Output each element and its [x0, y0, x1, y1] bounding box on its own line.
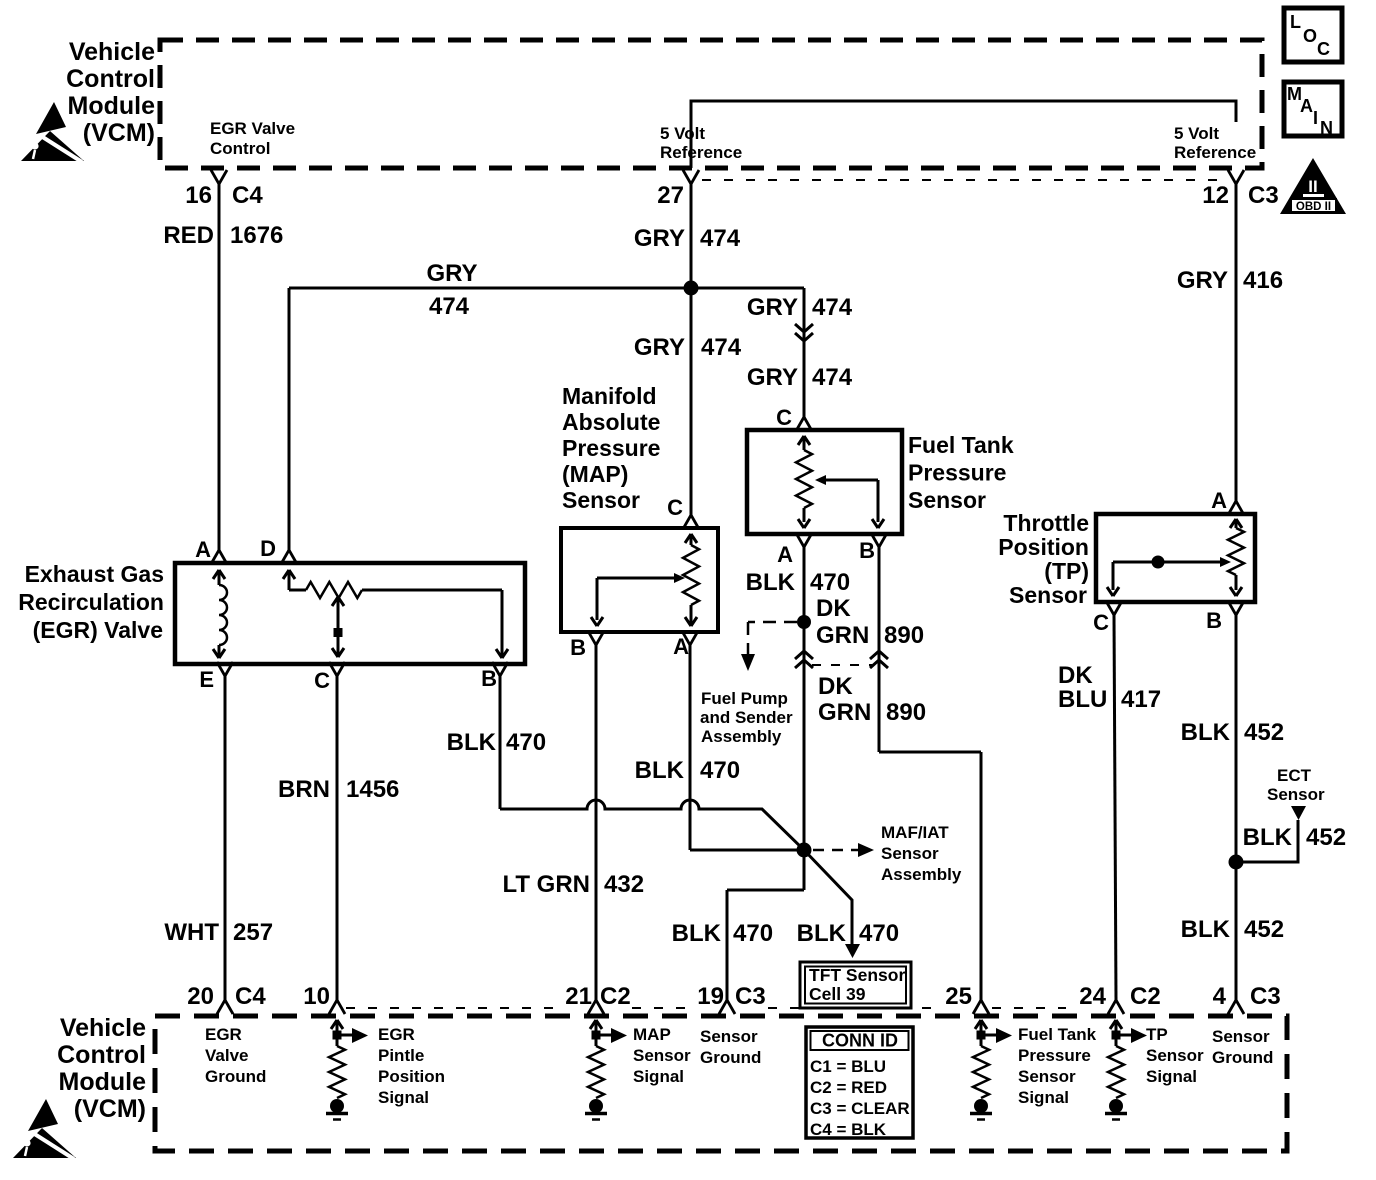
svg-text:C: C	[667, 495, 683, 520]
svg-text:C: C	[1317, 39, 1330, 59]
svg-text:(VCM): (VCM)	[83, 119, 155, 147]
svg-text:LT GRN: LT GRN	[502, 871, 590, 898]
svg-text:C3: C3	[735, 983, 766, 1010]
svg-text:Pressure: Pressure	[908, 460, 1006, 486]
svg-text:E: E	[199, 667, 214, 692]
svg-text:BLU: BLU	[1058, 686, 1107, 713]
svg-text:Vehicle: Vehicle	[60, 1014, 146, 1042]
svg-text:24: 24	[1079, 983, 1106, 1010]
svg-text:Absolute: Absolute	[562, 409, 660, 435]
svg-text:C2 = RED: C2 = RED	[810, 1078, 887, 1097]
svg-text:Signal: Signal	[1146, 1067, 1197, 1086]
svg-text:470: 470	[859, 920, 899, 947]
svg-text:CONN ID: CONN ID	[822, 1031, 898, 1051]
svg-text:BRN: BRN	[278, 776, 330, 803]
svg-text:and Sender: and Sender	[700, 708, 793, 727]
svg-text:(MAP): (MAP)	[562, 461, 628, 487]
svg-text:A: A	[1300, 96, 1313, 116]
svg-text:C4: C4	[232, 182, 263, 209]
svg-text:N: N	[1320, 118, 1333, 138]
svg-text:Reference: Reference	[1174, 143, 1256, 162]
svg-text:474: 474	[700, 225, 741, 252]
svg-text:O: O	[1303, 26, 1317, 46]
svg-text:Sensor: Sensor	[908, 487, 986, 513]
svg-text:Control: Control	[57, 1041, 146, 1069]
svg-text:TP: TP	[1146, 1025, 1168, 1044]
svg-text:890: 890	[884, 622, 924, 649]
svg-text:Position: Position	[378, 1067, 445, 1086]
svg-text:Module: Module	[59, 1068, 147, 1096]
svg-text:432: 432	[604, 871, 644, 898]
svg-text:5 Volt: 5 Volt	[1174, 124, 1219, 143]
svg-text:25: 25	[945, 983, 972, 1010]
svg-text:Ground: Ground	[700, 1048, 761, 1067]
svg-text:EGR Valve: EGR Valve	[210, 119, 295, 138]
svg-text:Sensor: Sensor	[881, 844, 939, 863]
svg-text:BLK: BLK	[746, 569, 796, 596]
svg-text:(TP): (TP)	[1044, 558, 1089, 584]
svg-text:L: L	[1290, 12, 1301, 32]
svg-text:452: 452	[1306, 824, 1346, 851]
svg-text:GRN: GRN	[818, 699, 871, 726]
svg-text:416: 416	[1243, 267, 1283, 294]
svg-text:DK: DK	[816, 595, 851, 622]
svg-text:Control: Control	[66, 65, 155, 93]
svg-text:Signal: Signal	[378, 1088, 429, 1107]
svg-text:Sensor: Sensor	[1018, 1067, 1076, 1086]
svg-text:II: II	[1308, 177, 1317, 196]
svg-text:BLK: BLK	[635, 757, 685, 784]
svg-text:TFT Sensor: TFT Sensor	[809, 965, 905, 985]
svg-text:(EGR) Valve: (EGR) Valve	[33, 617, 163, 643]
svg-text:452: 452	[1244, 916, 1284, 943]
svg-text:Signal: Signal	[1018, 1088, 1069, 1107]
svg-text:Position: Position	[998, 534, 1089, 560]
svg-text:Pressure: Pressure	[562, 435, 660, 461]
svg-text:RED: RED	[163, 222, 214, 249]
svg-text:20: 20	[187, 983, 214, 1010]
svg-text:1456: 1456	[346, 776, 399, 803]
svg-text:470: 470	[506, 729, 546, 756]
svg-text:474: 474	[429, 293, 470, 320]
svg-text:257: 257	[233, 919, 273, 946]
svg-text:A: A	[195, 537, 211, 562]
svg-text:Module: Module	[68, 92, 156, 120]
svg-text:BLK: BLK	[797, 920, 847, 947]
svg-text:GRY: GRY	[747, 364, 798, 391]
svg-text:Manifold: Manifold	[562, 383, 657, 409]
svg-text:ECT: ECT	[1277, 766, 1312, 785]
svg-text:BLK: BLK	[1181, 916, 1231, 943]
svg-text:A: A	[1211, 488, 1227, 513]
svg-text:Valve: Valve	[205, 1046, 249, 1065]
svg-text:C2: C2	[600, 983, 631, 1010]
svg-text:Throttle: Throttle	[1003, 510, 1089, 536]
svg-text:Sensor: Sensor	[562, 487, 640, 513]
svg-text:Pintle: Pintle	[378, 1046, 424, 1065]
svg-text:C2: C2	[1130, 983, 1161, 1010]
svg-text:DK: DK	[1058, 662, 1093, 689]
svg-text:452: 452	[1244, 719, 1284, 746]
svg-text:Assembly: Assembly	[881, 865, 962, 884]
svg-text:Reference: Reference	[660, 143, 742, 162]
svg-text:Exhaust Gas: Exhaust Gas	[25, 561, 164, 587]
svg-text:Fuel Tank: Fuel Tank	[908, 432, 1014, 458]
svg-text:27: 27	[657, 182, 684, 209]
svg-text:BLK: BLK	[1243, 824, 1293, 851]
svg-text:Ground: Ground	[205, 1067, 266, 1086]
svg-text:BLK: BLK	[447, 729, 497, 756]
svg-text:470: 470	[700, 757, 740, 784]
svg-text:12: 12	[1202, 182, 1229, 209]
svg-text:Sensor: Sensor	[1267, 785, 1325, 804]
svg-text:Ground: Ground	[1212, 1048, 1273, 1067]
svg-text:C: C	[314, 668, 330, 693]
svg-text:GRY: GRY	[634, 225, 685, 252]
svg-text:474: 474	[812, 364, 853, 391]
svg-text:GRY: GRY	[1177, 267, 1228, 294]
svg-text:B: B	[481, 666, 497, 691]
svg-text:C3: C3	[1248, 182, 1279, 209]
svg-text:10: 10	[303, 983, 330, 1010]
svg-text:Fuel Pump: Fuel Pump	[701, 689, 788, 708]
svg-text:GRY: GRY	[747, 294, 798, 321]
svg-text:417: 417	[1121, 686, 1161, 713]
svg-text:16: 16	[185, 182, 212, 209]
svg-text:Vehicle: Vehicle	[69, 38, 155, 66]
svg-text:BLK: BLK	[672, 920, 722, 947]
svg-text:470: 470	[733, 920, 773, 947]
svg-text:MAF/IAT: MAF/IAT	[881, 823, 949, 842]
svg-text:B: B	[859, 538, 875, 563]
svg-text:WHT: WHT	[164, 919, 219, 946]
svg-text:Signal: Signal	[633, 1067, 684, 1086]
svg-text:(VCM): (VCM)	[74, 1095, 146, 1123]
svg-text:474: 474	[812, 294, 853, 321]
svg-text:A: A	[777, 542, 793, 567]
svg-text:890: 890	[886, 699, 926, 726]
svg-text:Sensor: Sensor	[1009, 582, 1087, 608]
svg-text:21: 21	[565, 983, 592, 1010]
svg-text:474: 474	[701, 334, 742, 361]
svg-text:Sensor: Sensor	[700, 1027, 758, 1046]
svg-text:Recirculation: Recirculation	[18, 589, 164, 615]
svg-text:EGR: EGR	[205, 1025, 242, 1044]
svg-text:C4: C4	[235, 983, 266, 1010]
svg-text:Control: Control	[210, 139, 270, 158]
svg-text:Sensor: Sensor	[1212, 1027, 1270, 1046]
svg-text:470: 470	[810, 569, 850, 596]
svg-text:BLK: BLK	[1181, 719, 1231, 746]
svg-text:C: C	[1093, 610, 1109, 635]
svg-text:Cell 39: Cell 39	[809, 984, 866, 1004]
svg-text:MAP: MAP	[633, 1025, 671, 1044]
svg-text:C4 = BLK: C4 = BLK	[810, 1120, 887, 1139]
svg-text:C3: C3	[1250, 983, 1281, 1010]
svg-text:B: B	[570, 635, 586, 660]
svg-text:EGR: EGR	[378, 1025, 415, 1044]
svg-text:DK: DK	[818, 673, 853, 700]
svg-text:C3 = CLEAR: C3 = CLEAR	[810, 1099, 910, 1118]
svg-text:GRY: GRY	[634, 334, 685, 361]
svg-text:C1 = BLU: C1 = BLU	[810, 1057, 886, 1076]
svg-text:1676: 1676	[230, 222, 283, 249]
svg-text:B: B	[1206, 608, 1222, 633]
svg-text:Fuel Tank: Fuel Tank	[1018, 1025, 1097, 1044]
svg-text:Assembly: Assembly	[701, 727, 782, 746]
svg-text:19: 19	[697, 983, 724, 1010]
svg-text:GRN: GRN	[816, 622, 869, 649]
svg-text:4: 4	[1213, 983, 1227, 1010]
svg-text:GRY: GRY	[426, 260, 477, 287]
svg-text:OBD II: OBD II	[1296, 201, 1331, 213]
svg-text:Sensor: Sensor	[633, 1046, 691, 1065]
svg-text:I: I	[1313, 108, 1318, 128]
svg-text:Sensor: Sensor	[1146, 1046, 1204, 1065]
svg-text:5 Volt: 5 Volt	[660, 124, 705, 143]
svg-text:Pressure: Pressure	[1018, 1046, 1091, 1065]
svg-text:C: C	[776, 405, 792, 430]
svg-text:D: D	[260, 536, 276, 561]
